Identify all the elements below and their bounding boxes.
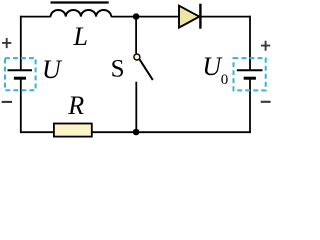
- plus sign right: [261, 41, 270, 51]
- svg-text:U: U: [42, 55, 63, 84]
- svg-text:L: L: [73, 22, 88, 51]
- battery U short plate: [14, 77, 26, 80]
- battery U0 dashed box: [234, 58, 266, 90]
- resistor R body: [54, 124, 92, 137]
- svg-text:S: S: [111, 56, 125, 83]
- wire left vertical upper: [20, 16, 22, 71]
- wire left vertical lower: [20, 79, 22, 133]
- diode D triangle: [179, 6, 199, 28]
- inductor L coil: [51, 10, 112, 17]
- wire right vertical upper: [249, 16, 251, 71]
- svg-text:0: 0: [221, 72, 229, 88]
- battery U0 long plate: [237, 69, 263, 71]
- minus sign left: [2, 101, 12, 103]
- battery U long plate: [8, 69, 33, 71]
- battery U dashed box: [5, 58, 36, 90]
- switch S lower lead: [135, 82, 137, 133]
- battery U0 short plate: [244, 77, 256, 80]
- minus sign right: [261, 101, 271, 103]
- node bottom junction: [133, 129, 140, 136]
- wire bottom horizontal: [21, 131, 250, 133]
- switch S pivot circle: [134, 54, 140, 60]
- node top junction: [133, 13, 140, 20]
- diode D cathode bar: [199, 4, 201, 29]
- switch S upper lead: [135, 17, 137, 54]
- svg-text:R: R: [67, 91, 84, 120]
- wire right vertical lower: [249, 79, 251, 133]
- wire top-left horizontal: [21, 16, 51, 18]
- inductor core bar: [51, 1, 109, 3]
- plus sign left: [2, 38, 11, 48]
- switch S blade: [140, 59, 153, 80]
- wire top-right horizontal: [111, 16, 250, 18]
